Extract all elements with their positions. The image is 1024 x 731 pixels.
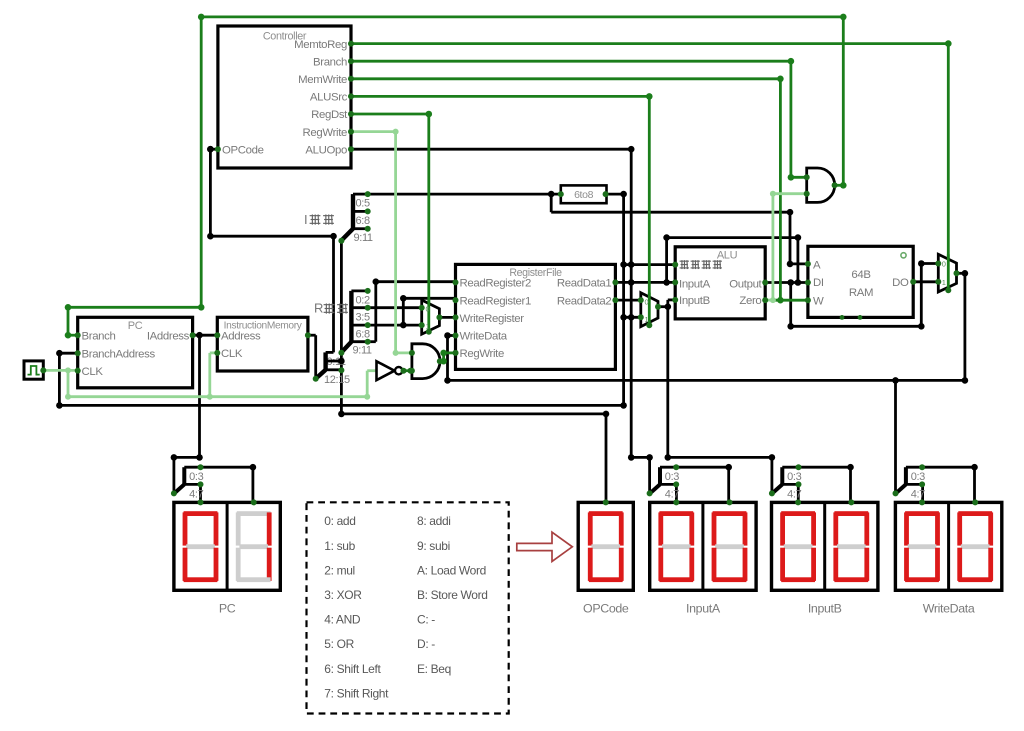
wire ReadData1 to ALU InputA — [615, 281, 675, 284]
wire R-format 6:8 to mux input 1 and ReadRegister1 — [368, 324, 422, 327]
wire PC display high digit feed — [201, 466, 253, 469]
AND gate branch-zero — [807, 168, 835, 202]
svg-text:4:7: 4:7 — [911, 489, 925, 501]
svg-text:Address: Address — [221, 330, 261, 342]
wire opcode run to OPCode display — [341, 412, 606, 415]
wire InstructionMemory output to splitter root — [308, 334, 316, 337]
junction dots green — [945, 40, 952, 47]
wire RegDst mux output to WriteRegister — [439, 316, 455, 319]
svg-text:1: 1 — [942, 278, 946, 287]
svg-text:ReadData2: ReadData2 — [557, 295, 611, 307]
node ALU control label (kanji) — [680, 260, 689, 269]
display PC — [174, 502, 280, 590]
wire MemtoReg — [351, 42, 948, 45]
wire ALU result bypass under RAM — [789, 283, 792, 327]
splitter R-format — [349, 291, 353, 342]
wire MemWrite to RAM W — [351, 77, 780, 80]
svg-text:ReadData1: ReadData1 — [557, 278, 611, 290]
svg-text:BranchAddress: BranchAddress — [82, 348, 156, 360]
wire RegDst select overlay — [427, 300, 430, 332]
junction dots pale green — [65, 367, 71, 373]
mux ALUSrc — [641, 293, 658, 327]
wire Branch to AND gate — [351, 60, 791, 63]
svg-text:9:11: 9:11 — [354, 232, 373, 244]
svg-text:64B: 64B — [851, 269, 870, 281]
wire branch feedback AND out to PC Branch — [835, 184, 844, 187]
svg-text:RegDst: RegDst — [311, 109, 348, 121]
controller U-CTRL — [218, 26, 351, 168]
wire ALU Output to RAM DI — [765, 281, 808, 284]
svg-text:Branch: Branch — [82, 330, 116, 342]
wire opcode to Controller OPCode — [332, 236, 335, 352]
svg-text:PC: PC — [128, 320, 143, 332]
svg-text:OPCode: OPCode — [222, 144, 264, 156]
legend box — [307, 502, 509, 713]
svg-text:E: Beq: E: Beq — [417, 662, 451, 676]
svg-text:DI: DI — [813, 277, 824, 289]
svg-text:0: add: 0: add — [324, 514, 355, 528]
svg-text:Zero: Zero — [739, 295, 761, 307]
svg-text:CLK: CLK — [82, 366, 104, 378]
wire imm to ALUSrc mux input 1 — [624, 316, 641, 319]
extender 6to8 — [561, 185, 607, 203]
wire imm run to RAM address — [551, 211, 790, 214]
svg-text:4:7: 4:7 — [665, 489, 679, 501]
svg-text:4:7: 4:7 — [787, 489, 801, 501]
svg-text:MemWrite: MemWrite — [298, 74, 347, 86]
svg-text:A: A — [813, 260, 821, 272]
splitter InputA display nibbles — [658, 467, 662, 484]
splitter InputB display nibbles — [780, 467, 784, 484]
display OPCode — [578, 502, 633, 590]
wire writeback run — [448, 379, 965, 382]
svg-text:3: XOR: 3: XOR — [324, 588, 362, 602]
wire 6to8 output vertical (imm extended) — [622, 194, 625, 405]
wire ReadData1 riser run — [667, 236, 798, 239]
svg-text:6:8: 6:8 — [356, 329, 370, 341]
svg-text:OPCode: OPCode — [583, 601, 629, 615]
svg-text:0:3: 0:3 — [189, 471, 203, 483]
junction dots black — [207, 146, 214, 153]
svg-text:InputB: InputB — [679, 295, 710, 307]
wire RAM DO to mux input 1 — [913, 280, 938, 283]
svg-text:I: I — [304, 212, 307, 227]
wire AND output to RegWrite pin — [440, 360, 444, 363]
wire branch address run — [59, 404, 623, 407]
memory InstructionMemory — [217, 317, 308, 371]
svg-text:ALU: ALU — [717, 249, 738, 261]
clock component — [24, 361, 43, 379]
svg-text:InputA: InputA — [679, 278, 711, 290]
NOT gate clock inverter — [377, 361, 395, 380]
wire PC IAddress to InstructionMemory Address — [193, 334, 218, 337]
wire clock to InstructionMemory CLK — [208, 353, 211, 397]
svg-text:8: addi: 8: addi — [417, 514, 451, 528]
svg-text:A: Load Word: A: Load Word — [417, 563, 486, 577]
splitter I-format — [351, 194, 355, 229]
wire 6to8 output link — [606, 193, 624, 196]
svg-text:4:7: 4:7 — [189, 489, 203, 501]
display InputB — [772, 502, 878, 590]
RAM 64B — [808, 246, 913, 317]
wire WriteData display digit feeds — [922, 466, 974, 469]
svg-text:0: 0 — [942, 259, 946, 268]
svg-text:2: mul: 2: mul — [324, 563, 355, 577]
svg-text:ReadRegister1: ReadRegister1 — [460, 295, 531, 307]
display InputA — [650, 502, 756, 590]
svg-text:Output: Output — [729, 278, 762, 290]
ALU U-ALU — [675, 247, 765, 319]
svg-text:6to8: 6to8 — [574, 189, 594, 201]
svg-text:ALUOpo: ALUOpo — [305, 144, 347, 156]
wire ALUSrc mux output to ALU InputB — [658, 305, 668, 308]
wire ALUOp from Controller to vertical drop — [351, 148, 631, 151]
wire clock distribution — [68, 395, 367, 398]
svg-text:0:3: 0:3 — [665, 471, 679, 483]
mux MemtoReg — [938, 254, 956, 292]
svg-text:7: Shift Right: 7: Shift Right — [324, 686, 389, 700]
wire WriteData display feed — [894, 380, 897, 493]
wire R-format 9:11 to ReadRegister2 — [368, 340, 376, 343]
wire ALUOp vertical drop to InputA display feed — [630, 149, 633, 457]
svg-text:B: Store Word: B: Store Word — [417, 588, 488, 602]
wire ALUSrc to mux select — [351, 95, 649, 98]
wire imm tap down — [550, 194, 553, 212]
wire Zero to AND gate pale — [765, 299, 773, 302]
svg-text:WriteData: WriteData — [460, 331, 508, 343]
svg-text:9: subi: 9: subi — [417, 539, 450, 553]
svg-text:9:11: 9:11 — [353, 345, 372, 357]
svg-text:0:2: 0:2 — [356, 295, 370, 307]
svg-text:4: AND: 4: AND — [324, 613, 361, 627]
wire RAM address drop — [789, 212, 792, 264]
svg-text:R: R — [314, 301, 323, 316]
register PC — [78, 317, 193, 388]
svg-text:ReadRegister2: ReadRegister2 — [460, 278, 531, 290]
svg-text:RegWrite: RegWrite — [460, 348, 504, 360]
svg-text:6: Shift Left: 6: Shift Left — [324, 662, 381, 676]
wire InputA display digit feeds — [676, 466, 728, 469]
wire InputB display digit feeds — [798, 466, 850, 469]
svg-text:InputB: InputB — [808, 601, 842, 615]
svg-text:RegWrite: RegWrite — [303, 127, 347, 139]
svg-text:MemtoReg: MemtoReg — [294, 39, 347, 51]
wire writeback to RF WriteData — [448, 334, 456, 337]
svg-text:0:3: 0:3 — [911, 471, 925, 483]
wire NOT output to AND input — [403, 369, 412, 372]
svg-text:1: 1 — [645, 315, 649, 324]
svg-text:CLK: CLK — [221, 348, 243, 360]
svg-text:1: sub: 1: sub — [324, 539, 355, 553]
svg-text:12:15: 12:15 — [324, 374, 350, 386]
wire R-format 3:5 to mux input 0 — [368, 306, 422, 309]
wire imm 0:5 to 6to8 input — [368, 193, 561, 196]
splitter PC display nibbles — [182, 467, 186, 484]
svg-text:InputA: InputA — [686, 601, 721, 615]
wire ReadData2 to mux — [615, 299, 640, 302]
display WriteData — [895, 502, 1001, 590]
svg-text:0:3: 0:3 — [787, 471, 801, 483]
splitter WriteData display nibbles — [904, 467, 908, 484]
svg-text:0: 0 — [645, 297, 649, 306]
wire RegWrite pale — [351, 130, 396, 133]
AND gate U-regwrite — [412, 344, 440, 379]
wire instruction bus I-root to R-root to opcode — [340, 241, 343, 414]
svg-text:WriteData: WriteData — [923, 601, 975, 615]
wire ALUOp branch to ALU control pin — [624, 263, 676, 266]
svg-text:D: -: D: - — [417, 637, 435, 651]
svg-text:WriteRegister: WriteRegister — [460, 313, 525, 325]
svg-text:0: 0 — [426, 305, 430, 314]
mux RegDst (write register select) — [422, 300, 440, 334]
register file U-RF — [456, 264, 616, 369]
red arrow pointing to OPCode display — [517, 532, 573, 561]
wire InputB display feed — [666, 307, 669, 458]
wire clock to PC CLK — [43, 369, 77, 372]
svg-text:Branch: Branch — [313, 56, 347, 68]
svg-text:IAddress: IAddress — [147, 330, 190, 342]
svg-text:RAM: RAM — [849, 287, 873, 299]
svg-text:3:5: 3:5 — [356, 312, 370, 324]
svg-text:W: W — [813, 295, 824, 307]
svg-text:0:5: 0:5 — [356, 198, 370, 210]
svg-text:5: OR: 5: OR — [324, 637, 354, 651]
svg-text:DO: DO — [892, 277, 909, 289]
svg-text:C: -: C: - — [417, 613, 435, 627]
wire IAddress drop to PC display — [198, 335, 201, 457]
wire InputA display feed — [631, 456, 649, 459]
svg-text:ALUSrc: ALUSrc — [310, 92, 348, 104]
wire RegDst to mux select — [351, 113, 429, 116]
svg-text:PC: PC — [219, 601, 236, 615]
svg-text:6:8: 6:8 — [356, 215, 370, 227]
